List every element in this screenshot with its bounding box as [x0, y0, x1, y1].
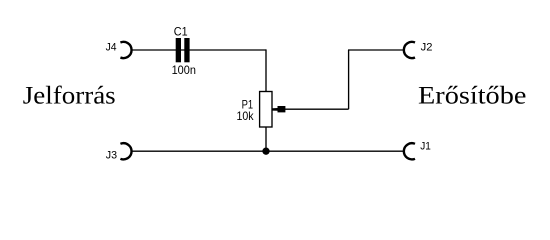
svg-text:J1: J1 — [420, 141, 431, 153]
wire vertical potentiometer bottom to node — [265, 127, 267, 151]
potentiometer P1 body — [260, 92, 272, 128]
wire top-left from J4 to C1 to corner — [132, 49, 266, 51]
svg-text:J4: J4 — [106, 41, 117, 53]
wire vertical up to J2 branch — [348, 50, 350, 109]
svg-text:C1: C1 — [174, 24, 188, 38]
wire vertical into potentiometer top — [265, 49, 267, 91]
svg-text:Erősítőbe: Erősítőbe — [418, 81, 526, 110]
svg-text:10k: 10k — [237, 110, 254, 123]
wire bottom from J3 to J1 — [132, 150, 403, 152]
wiper arrow of P1 — [272, 106, 285, 112]
capacitor C1 — [176, 38, 190, 62]
svg-text:Jelforrás: Jelforrás — [23, 81, 116, 110]
svg-text:J2: J2 — [421, 41, 433, 53]
connector J2 — [404, 42, 415, 58]
svg-text:100n: 100n — [172, 63, 196, 77]
junction node dot — [262, 148, 269, 155]
svg-text:J3: J3 — [106, 150, 117, 162]
connector J3 — [120, 143, 131, 159]
wire wiper horizontal — [285, 108, 349, 110]
connector J4 — [120, 42, 131, 58]
wire top-right to J2 — [348, 49, 403, 51]
connector J1 — [404, 143, 415, 159]
